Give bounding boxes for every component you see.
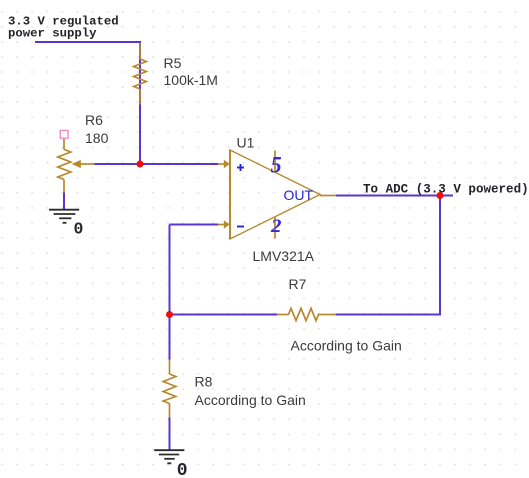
svg-text:To ADC (3.3 V powered): To ADC (3.3 V powered) [363,182,529,196]
svg-text:R6: R6 [85,112,103,128]
svg-text:R5: R5 [164,55,182,71]
svg-text:OUT: OUT [284,187,314,203]
svg-text:R7: R7 [289,276,307,292]
svg-text:LMV321A: LMV321A [253,248,315,264]
svg-text:2: 2 [270,217,282,237]
svg-text:U1: U1 [237,135,255,151]
svg-text:According to Gain: According to Gain [195,392,306,408]
svg-text:180: 180 [85,130,109,146]
svg-text:R8: R8 [195,374,213,390]
svg-text:5: 5 [271,153,282,178]
svg-text:power supply: power supply [8,26,97,40]
svg-text:100k-1M: 100k-1M [164,72,218,88]
svg-text:According to Gain: According to Gain [291,338,402,354]
svg-text:0: 0 [177,461,188,478]
svg-text:0: 0 [74,220,84,239]
